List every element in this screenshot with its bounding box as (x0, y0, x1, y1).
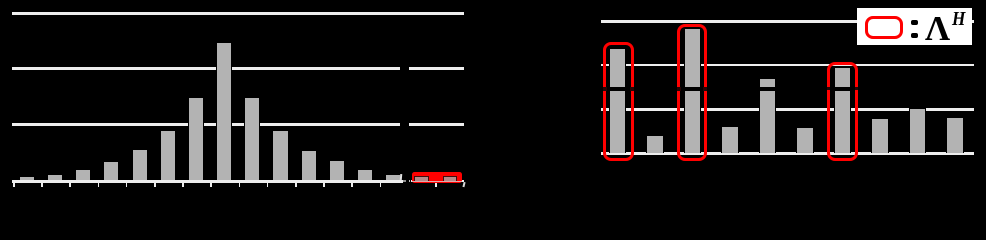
left bar 4 (103, 161, 119, 180)
left gridline 3 main segment (12, 123, 400, 126)
axis break mark at end of main axis (399, 174, 401, 180)
left axis tick 1 (13, 183, 15, 187)
red box 1 stroke pinch left (603, 87, 607, 91)
right bar 3 (684, 28, 701, 152)
axis break mark at end of tail axis (462, 181, 465, 186)
red highlight box 3 (around right bar 7) (827, 62, 858, 161)
red box 3 stroke pinch left (827, 87, 830, 91)
left bar 14 (385, 174, 401, 180)
left axis tick 12 (323, 183, 325, 187)
left axis tick 5 (126, 183, 128, 187)
left axis tick 7 (182, 183, 184, 187)
legend superscript H (952, 8, 965, 31)
axis strip showing through red box (412, 181, 462, 183)
right bar 10 (946, 117, 963, 153)
right bar 1 segment divider (609, 87, 627, 90)
right gridline 3 (601, 108, 974, 111)
left axis tick 3 (69, 183, 71, 187)
left gridline 2 tail segment (409, 67, 464, 70)
tail bar 15 (inside red box) (414, 176, 429, 182)
legend background box (857, 8, 972, 45)
right bar 5 segment divider (759, 87, 777, 90)
left bar 2 (47, 174, 63, 180)
left bar 8 (peak) (216, 42, 232, 180)
left x-axis tail segment (411, 180, 464, 183)
left axis tick 4 (98, 183, 100, 187)
left axis tick 14 (380, 183, 382, 187)
right gridline 1 (601, 20, 974, 23)
red box 2 stroke pinch left (677, 87, 681, 91)
left x-axis main segment (12, 180, 403, 183)
left bar 12 (329, 160, 345, 180)
left axis tick 2 (41, 183, 43, 187)
left gridline 3 tail segment (409, 123, 464, 126)
right bar 3 segment divider (684, 87, 702, 90)
right bar 8 (871, 118, 888, 153)
legend colon upper dot (911, 20, 917, 25)
right bar 7 (834, 67, 851, 153)
right bar 4 (721, 126, 738, 152)
left bar 3 (75, 169, 91, 181)
tail bar 16 (inside red box) (443, 176, 458, 182)
left bar 13 (357, 169, 373, 180)
legend Lambda glyph (925, 9, 950, 49)
left gridline 2 main segment (12, 67, 400, 70)
red box 2 stroke pinch right (703, 87, 707, 91)
legend colon lower dot (911, 33, 917, 38)
left bar 5 (132, 149, 148, 180)
left axis tick 6 (154, 183, 156, 187)
dim axis dot left of red box (409, 180, 410, 181)
left axis tick 11 (295, 183, 297, 187)
right bar 9 (909, 108, 926, 152)
left bar 6 (160, 130, 176, 181)
left axis tick 9 (239, 183, 241, 187)
red highlight box 1 (around right bar 1) (603, 42, 634, 162)
left axis tick 8 (210, 183, 212, 187)
left axis tick 10 (267, 183, 269, 187)
red box 1 stroke pinch right (630, 87, 634, 91)
left x-axis fading end (403, 180, 405, 182)
left bar 1 (19, 176, 35, 180)
right gridline 2 (601, 64, 974, 67)
red highlight box around tail bars (Lambda-H) (412, 172, 462, 182)
right bar 2 (646, 135, 663, 153)
right bar 1 (609, 48, 626, 153)
red box 3 stroke pinch right (855, 87, 858, 91)
right bar 6 (796, 127, 813, 153)
right bar 5 (759, 78, 776, 152)
left axis tick 13 (351, 183, 353, 187)
left bar 7 (188, 97, 204, 181)
right x-axis (601, 152, 974, 155)
left bar 10 (272, 130, 288, 180)
right bar 7 segment divider (834, 87, 852, 90)
left gridline 1 (top, spans full width incl. tail section) (12, 12, 463, 15)
legend red rounded-rect sample (865, 16, 903, 39)
left bar 11 (301, 150, 317, 181)
red highlight box 2 (around right bar 3) (677, 24, 707, 161)
tail axis tick (435, 183, 437, 187)
left bar 9 (244, 97, 260, 181)
